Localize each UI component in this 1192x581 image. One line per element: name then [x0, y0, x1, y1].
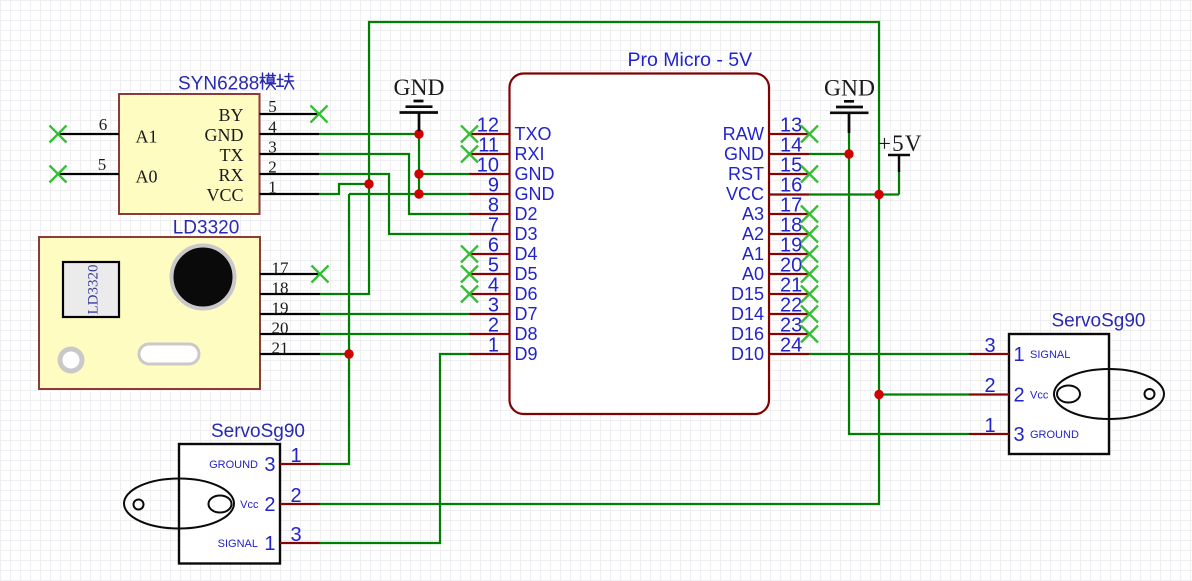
LD3320 mounting hole circle [60, 349, 82, 371]
LD3320 pin 19 [260, 299, 320, 318]
svg-text:4: 4 [488, 275, 499, 297]
svg-text:A0: A0 [742, 264, 764, 284]
svg-text:17: 17 [780, 195, 802, 217]
svg-text:8: 8 [488, 195, 499, 217]
no-connect flag SYN A1 [50, 126, 67, 143]
svg-text:2: 2 [984, 375, 995, 397]
svg-text:24: 24 [780, 335, 802, 357]
svg-text:16: 16 [780, 175, 802, 197]
Servo left pin 1 GROUND [209, 445, 319, 476]
svg-text:RXI: RXI [515, 144, 545, 164]
svg-text:D10: D10 [731, 344, 764, 364]
no-connect flag D4 [461, 246, 478, 263]
svg-text:GND: GND [515, 184, 555, 204]
wire LD3320 pin20 to D8 (320,334)-(470,334) [320, 333, 470, 335]
svg-text:3: 3 [488, 295, 499, 317]
SYN6288 pin 4 GND [205, 118, 320, 146]
wire VCC net rail: LD3320 pin18 up over the top to servo1 Vcc [319, 22, 879, 504]
svg-text:A1: A1 [742, 244, 764, 264]
no-connect flag A0 20 [801, 266, 818, 283]
Pro Micro pin 11 RXI [470, 135, 545, 165]
SYN6288 pin 6 A1 [58, 115, 158, 147]
Pro Micro pin 5 D5 [470, 255, 538, 285]
svg-text:22: 22 [780, 295, 802, 317]
svg-text:3: 3 [268, 138, 277, 157]
svg-text:9: 9 [488, 175, 499, 197]
Pro Micro pin 9 GND [470, 175, 555, 205]
svg-text:GND: GND [394, 75, 445, 101]
wire GND vertical (419,134)-(419,194) [418, 134, 420, 194]
svg-text:2: 2 [290, 485, 301, 507]
wire Pro Micro VCC16 to +5V junction (809,194.5)-(899,194.5) [809, 193, 899, 195]
wire GND vertical to servo1 ground (349,194)-(349,464)-(319,464) [319, 194, 349, 464]
svg-text:4: 4 [268, 118, 277, 137]
junction (419,174) GND/pin10 [414, 169, 423, 178]
svg-text:BY: BY [218, 105, 243, 125]
junction (349,354) LD21/servo1 ground [344, 349, 353, 358]
wire GND to Pro Micro pin10 (419,174)-(470,174) [419, 173, 470, 175]
wire VCC rail to servo2 Vcc (879,394.5)-(969,394.5) [879, 393, 969, 395]
svg-text:SYN6288: SYN6288 [178, 74, 259, 95]
svg-text:2: 2 [264, 494, 275, 516]
LD3320 pin 17 [260, 259, 320, 278]
svg-text:D2: D2 [515, 204, 538, 224]
no-connect flag A2 18 [801, 226, 818, 243]
svg-text:D8: D8 [515, 324, 538, 344]
svg-text:18: 18 [272, 279, 289, 298]
svg-text:D16: D16 [731, 324, 764, 344]
svg-text:LD3320: LD3320 [86, 265, 102, 315]
wire SYN TX to D2 (319,154)-(409,154)-(409,214)-(470,214) [319, 154, 470, 214]
svg-text:D4: D4 [515, 244, 538, 264]
svg-text:14: 14 [780, 135, 802, 157]
svg-text:1: 1 [264, 533, 275, 555]
Servo left pin 2 Vcc [240, 485, 319, 516]
svg-text:1: 1 [488, 335, 499, 357]
svg-text:21: 21 [780, 275, 802, 297]
svg-text:3: 3 [1014, 424, 1025, 446]
svg-text:5: 5 [488, 255, 499, 277]
svg-text:D15: D15 [731, 284, 764, 304]
svg-text:13: 13 [780, 115, 802, 137]
svg-text:18: 18 [780, 215, 802, 237]
svg-text:D5: D5 [515, 264, 538, 284]
svg-text:Pro Micro - 5V: Pro Micro - 5V [628, 49, 753, 71]
wire GND row to Pro Micro pin9 (349,194)-(470,194) [349, 193, 470, 195]
junction (879,394.5) servo2 Vcc [874, 390, 883, 399]
component U2 LD3320 body [39, 237, 260, 389]
no-connect flag A1 19 [801, 246, 818, 263]
svg-text:GND: GND [824, 76, 875, 102]
no-connect flag RST 15 [801, 166, 818, 183]
svg-text:GROUND: GROUND [209, 459, 258, 471]
LD3320 pin 21 [260, 339, 320, 358]
svg-text:19: 19 [272, 299, 289, 318]
svg-text:GND: GND [205, 125, 244, 145]
svg-text:TX: TX [220, 145, 244, 165]
svg-text:23: 23 [780, 315, 802, 337]
value label ServoSg90 left title [211, 421, 305, 442]
Servo right pin 2 Vcc [969, 375, 1049, 407]
Pro Micro pin 19 A1 [742, 235, 809, 265]
component M1 ServoSg90 left body [124, 444, 280, 564]
svg-text:1: 1 [290, 445, 301, 467]
component U1 SYN6288 module body [119, 94, 260, 214]
svg-text:19: 19 [780, 235, 802, 257]
value label ServoSg90 right title [1051, 311, 1145, 332]
LD3320 connector pill [139, 344, 199, 364]
svg-text:3: 3 [984, 335, 995, 357]
Pro Micro pin 21 D15 [731, 275, 809, 305]
svg-text:A0: A0 [136, 167, 158, 187]
no-connect flag D15 21 [801, 286, 818, 303]
SYN6288 pin 3 TX [220, 138, 320, 166]
svg-text:TXO: TXO [515, 124, 552, 144]
Pro Micro pin 6 D4 [470, 235, 538, 265]
svg-text:5: 5 [268, 97, 277, 116]
svg-text:7: 7 [488, 215, 499, 237]
svg-text:21: 21 [272, 339, 289, 358]
svg-text:6: 6 [488, 235, 499, 257]
wire Pro Micro GND14 to right GND (809,154)-(849,154) [809, 153, 849, 155]
value label SYN6288 title text [178, 74, 259, 95]
svg-text:VCC: VCC [206, 185, 243, 205]
svg-text:D3: D3 [515, 224, 538, 244]
svg-text:D9: D9 [515, 344, 538, 364]
svg-text:2: 2 [1014, 385, 1025, 407]
svg-text:RAW: RAW [723, 124, 764, 144]
svg-text:1: 1 [1014, 344, 1025, 366]
svg-text:3: 3 [264, 454, 275, 476]
svg-text:A1: A1 [136, 127, 158, 147]
Servo left pin 3 SIGNAL [218, 524, 320, 555]
Pro Micro pin 24 D10 [731, 335, 809, 365]
no-connect flag D16 23 [801, 326, 818, 343]
Pro Micro pin 16 VCC [726, 175, 809, 205]
power symbol GND left [394, 75, 445, 131]
svg-text:3: 3 [290, 524, 301, 546]
LD3320 microphone circle [172, 246, 235, 309]
Pro Micro pin 13 RAW [723, 115, 809, 145]
value label hanzi KUAI (block) [277, 74, 294, 90]
svg-text:SIGNAL: SIGNAL [218, 538, 258, 550]
power symbol +5V [878, 131, 923, 172]
SYN6288 pin 2 RX [218, 158, 319, 186]
svg-text:Vcc: Vcc [1030, 390, 1049, 402]
Pro Micro pin 2 D8 [470, 315, 538, 345]
svg-text:VCC: VCC [726, 184, 764, 204]
svg-text:GROUND: GROUND [1030, 429, 1079, 441]
component M2 ServoSg90 right body [1009, 334, 1164, 454]
no-connect flag SYN BY [311, 106, 328, 123]
junction (849,154) right GND [844, 149, 853, 158]
value label hanzi MO (module) [260, 73, 276, 89]
wire SYN GND pin to GND junction (319,134)-(419,134) [319, 133, 419, 135]
value label LD3320 title [173, 218, 240, 239]
svg-text:6: 6 [99, 115, 108, 134]
Pro Micro pin 8 D2 [470, 195, 538, 225]
junction (419,134) GND/SYN [414, 129, 423, 138]
component U3 Pro Micro - 5V body [510, 74, 770, 415]
Pro Micro pin 22 D14 [731, 295, 809, 325]
svg-text:ServoSg90: ServoSg90 [211, 421, 305, 442]
svg-text:1: 1 [984, 415, 995, 437]
svg-text:A3: A3 [742, 204, 764, 224]
Servo right pin 1 GROUND [969, 415, 1079, 446]
Pro Micro pin 3 D7 [470, 295, 538, 325]
SYN6288 pin 5 A0 [58, 155, 158, 187]
svg-text:20: 20 [272, 319, 289, 338]
Pro Micro pin 20 A0 [742, 255, 809, 285]
wire D9 to servo1 signal (470,354)-(440,354)-(440,543)-(319,543) [319, 354, 470, 543]
no-connect flag RAW 13 [801, 126, 818, 143]
no-connect flag TXO 12 [461, 126, 478, 143]
junction (369,184) VCC jog [364, 179, 373, 188]
svg-text:1: 1 [268, 178, 277, 197]
no-connect flag D14 22 [801, 306, 818, 323]
svg-text:+5V: +5V [878, 131, 923, 156]
LD3320 chip square with rotated label [63, 262, 119, 317]
wire +5V stem elbow (899,171)-(899,194.5) [898, 171, 900, 195]
svg-text:D14: D14 [731, 304, 764, 324]
svg-text:2: 2 [268, 158, 277, 177]
Pro Micro pin 15 RST [728, 155, 809, 185]
svg-text:GND: GND [724, 144, 764, 164]
Pro Micro pin 7 D3 [470, 215, 538, 245]
svg-text:Vcc: Vcc [240, 499, 259, 511]
wire D10 to servo2 signal (809,354)-(969,354) [809, 353, 969, 355]
Pro Micro pin 23 D16 [731, 315, 809, 345]
Pro Micro pin 12 TXO [470, 115, 552, 145]
svg-text:D7: D7 [515, 304, 538, 324]
wire SYN VCC jog (319,194)-(339,194)-(339,184)-(369,184) [319, 184, 369, 194]
no-connect flag D5 [461, 266, 478, 283]
wire LD3320 pin21 to junction (320,354)-(349,354) [320, 353, 349, 355]
Pro Micro pin 4 D6 [470, 275, 538, 305]
svg-text:15: 15 [780, 155, 802, 177]
svg-text:SIGNAL: SIGNAL [1030, 349, 1070, 361]
svg-text:11: 11 [478, 135, 499, 157]
Pro Micro pin 18 A2 [742, 215, 809, 245]
no-connect flag D6 [461, 286, 478, 303]
wire LD3320 pin19 to D7 (320,314)-(470,314) [320, 313, 470, 315]
LD3320 pin 20 [260, 319, 320, 338]
svg-text:2: 2 [488, 315, 499, 337]
svg-text:RST: RST [728, 164, 764, 184]
no-connect flag SYN A0 [50, 166, 67, 183]
svg-text:A2: A2 [742, 224, 764, 244]
no-connect flag A3 17 [801, 206, 818, 223]
power symbol GND right [824, 76, 875, 134]
svg-text:17: 17 [272, 259, 290, 278]
svg-text:LD3320: LD3320 [173, 218, 240, 239]
wire right GND vertical to servo2 ground (849,133)-(849,434)-(969,434) [849, 133, 969, 434]
LD3320 pin 18 [260, 279, 320, 298]
Pro Micro pin 1 D9 [470, 335, 538, 365]
SYN6288 pin 5 BY [218, 97, 319, 125]
svg-text:ServoSg90: ServoSg90 [1051, 311, 1145, 332]
junction (879,194.5) +5V/VCC16 [874, 190, 883, 199]
svg-text:RX: RX [218, 165, 243, 185]
wire SYN RX to D3 (319,174)-(389,174)-(389,234)-(470,234) [319, 174, 470, 234]
svg-text:20: 20 [780, 255, 802, 277]
value label Pro Micro - 5V title [628, 49, 753, 71]
svg-text:12: 12 [477, 115, 499, 137]
svg-text:5: 5 [98, 155, 107, 174]
junction (419,194) GND/pin9 [414, 189, 423, 198]
no-connect flag LD pin17 [312, 266, 329, 283]
svg-text:D6: D6 [515, 284, 538, 304]
Pro Micro pin 14 GND [724, 135, 809, 165]
no-connect flag RXI 11 [461, 146, 478, 163]
Servo right pin 3 SIGNAL [969, 335, 1070, 366]
Pro Micro pin 10 GND [470, 155, 555, 185]
svg-text:GND: GND [515, 164, 555, 184]
svg-text:10: 10 [477, 155, 499, 177]
SYN6288 pin 1 VCC [206, 178, 319, 206]
Pro Micro pin 17 A3 [742, 195, 809, 225]
